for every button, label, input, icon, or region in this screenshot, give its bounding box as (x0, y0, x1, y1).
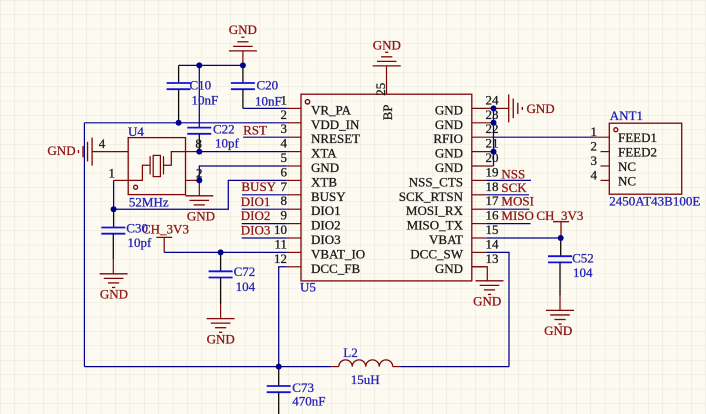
svg-text:DCC_SW: DCC_SW (410, 246, 463, 261)
wire: U5 pin 12 DCC_FB down to bottom rail (279, 267, 287, 367)
svg-text:VR_PA: VR_PA (311, 102, 352, 117)
U5 pin 4 stub (287, 151, 301, 153)
U5 pin 3 stub (287, 136, 301, 138)
svg-text:GND: GND (187, 208, 215, 223)
svg-text:DIO1: DIO1 (241, 194, 271, 209)
svg-text:3: 3 (591, 153, 598, 168)
svg-text:MOSI: MOSI (501, 194, 534, 209)
svg-text:16: 16 (486, 208, 500, 223)
svg-text:SCK_RTSN: SCK_RTSN (399, 189, 464, 204)
svg-text:10nF: 10nF (192, 92, 219, 107)
svg-text:3: 3 (281, 121, 288, 136)
svg-text:10nF: 10nF (255, 93, 282, 108)
svg-text:6: 6 (281, 164, 288, 179)
svg-text:ANT1: ANT1 (610, 108, 643, 123)
svg-text:NC: NC (618, 173, 636, 188)
U5 pin 9 stub (287, 223, 301, 225)
wire: U5 pin 5 GND down to U4 pin 2 junction (199, 166, 286, 180)
svg-text:104: 104 (236, 279, 256, 294)
junction: ground rail / C20 (240, 62, 246, 68)
wire: XTA from crystal to U5 pin 4 (199, 151, 286, 153)
svg-text:12: 12 (274, 251, 287, 266)
ground symbol right of U5 pin 24 (509, 94, 523, 122)
U4 pin-1 indicator circle (134, 185, 138, 189)
U5 pin 17 stub (472, 208, 486, 210)
U5 pin 16 stub (472, 223, 486, 225)
svg-text:DIO2: DIO2 (241, 208, 271, 223)
wire: CH_3V3 to U5 pin 11 VBAT_IO (164, 251, 286, 253)
svg-text:VDD_IN: VDD_IN (311, 117, 360, 132)
svg-text:104: 104 (573, 265, 593, 280)
ANT1 pin 3 stub (601, 165, 610, 167)
svg-text:19: 19 (486, 164, 499, 179)
wire: RST net to U5 pin 3 (243, 136, 287, 138)
capacitor C22 bottom pin (198, 134, 200, 152)
junction: VBAT wire / C52 / CH_3V3 (558, 235, 564, 241)
svg-text:GND: GND (527, 101, 555, 116)
svg-text:15: 15 (486, 222, 499, 237)
ground symbol below C72 (207, 319, 235, 333)
U5 pin-1 indicator circle (305, 100, 309, 104)
svg-text:C72: C72 (234, 264, 256, 279)
U5 pin 24 stub (472, 107, 494, 109)
svg-text:13: 13 (486, 251, 499, 266)
U5 pin 20 stub (472, 165, 494, 167)
ground stem below C30 (112, 259, 114, 273)
svg-text:52MHz: 52MHz (129, 194, 169, 209)
ground symbol below U4 pin 2 (185, 196, 213, 210)
wire: DIO1 net to U5 pin 8 (242, 208, 287, 210)
wire: top ground rail C10-C20 (179, 64, 243, 66)
wire: right ground bus pins 24-20 (493, 108, 495, 166)
wire: C20 to U5 pin 1 VR_PA (243, 107, 287, 109)
ground symbol below C52 (546, 310, 574, 324)
svg-text:DCC_FB: DCC_FB (311, 261, 360, 276)
crystal symbol inside U4 (128, 152, 185, 181)
junction: pin 23 / ground bus (491, 120, 497, 126)
ANT1 pin-1 indicator circle (614, 128, 618, 132)
svg-text:GND: GND (473, 293, 501, 308)
ANT1 pin 4 stub (601, 179, 610, 181)
U5 pin 7 stub (287, 194, 301, 196)
ANT1 pin 2 stub (601, 151, 610, 153)
U5 pin 10 stub (287, 237, 301, 239)
svg-text:GND: GND (373, 38, 401, 53)
ground symbol at U4 pin 4 (78, 138, 92, 166)
U5 pin 25 stub (386, 66, 388, 94)
U4 pin 8 stub (186, 151, 200, 153)
U5 pin 19 stub (472, 179, 486, 181)
svg-text:U5: U5 (300, 280, 316, 295)
junction: XTB / U4 pin 1 / C30 (111, 206, 117, 212)
svg-text:9: 9 (281, 208, 288, 223)
U5 pin 18 stub (472, 194, 486, 196)
svg-text:4: 4 (591, 167, 598, 182)
svg-text:L2: L2 (343, 345, 357, 360)
capacitor C73 (267, 386, 291, 392)
wire: VBAT to C52 / CH_3V3 (486, 237, 561, 239)
wire: DIO2 net to U5 pin 9 (242, 223, 287, 225)
wire: MISO net U5 pin 16 (486, 223, 530, 225)
svg-text:RFIO: RFIO (433, 131, 463, 146)
inductor L2 left pin (331, 366, 339, 368)
svg-text:1: 1 (591, 124, 598, 139)
ground stem below C52 (559, 296, 561, 311)
U5 pin 6 stub (287, 179, 301, 181)
svg-text:DIO3: DIO3 (311, 232, 341, 247)
U5 pin 13 ground link (472, 267, 488, 281)
U5 pin 15 stub (472, 237, 486, 239)
capacitor C20 top pin (242, 65, 244, 83)
svg-text:GND: GND (311, 160, 339, 175)
svg-text:2450AT43B100E: 2450AT43B100E (609, 194, 700, 209)
U4 pin 4 stub (92, 151, 128, 153)
svg-text:C30: C30 (126, 221, 148, 236)
svg-text:1: 1 (281, 92, 288, 107)
power port CH_3V3 (right, at VBAT) (553, 222, 569, 238)
svg-text:DIO1: DIO1 (311, 203, 341, 218)
svg-text:GND: GND (435, 102, 463, 117)
capacitor C73 top pin (278, 367, 280, 386)
svg-text:GND: GND (207, 331, 235, 346)
wire: SCK net U5 pin 18 (486, 194, 529, 196)
svg-text:5: 5 (281, 150, 288, 165)
capacitor C22 (187, 128, 211, 134)
IC U5 body (301, 94, 472, 281)
svg-text:XTA: XTA (311, 146, 337, 161)
wire: MOSI net U5 pin 17 (486, 208, 529, 210)
capacitor C72 (209, 271, 233, 277)
junction: ground rail / C22 line (196, 62, 202, 68)
U5 pin 21 stub (472, 151, 494, 153)
U5 pin 5 stub (287, 165, 301, 167)
wire: bottom rail right section (400, 366, 509, 368)
junction: XTA / C22 / U4 pin 8 (196, 149, 202, 155)
svg-text:10: 10 (274, 222, 287, 237)
wire: DIO3 net to U5 pin 10 (242, 237, 287, 239)
svg-text:15uH: 15uH (351, 372, 380, 387)
U4 pin 2 stub (186, 179, 200, 181)
svg-text:11: 11 (274, 236, 287, 251)
capacitor C10 top pin (178, 65, 180, 83)
svg-text:24: 24 (486, 92, 500, 107)
capacitor C30 top pin (113, 209, 115, 227)
capacitor C30 bottom pin (112, 234, 114, 260)
U5 pin 23 stub (472, 122, 494, 124)
capacitor C72 top pin (220, 252, 222, 271)
ANT1 pin 1 stub (593, 136, 609, 138)
power port CH_3V3 (left, at C30/VBAT_IO) (156, 237, 172, 252)
svg-text:VBAT: VBAT (429, 232, 463, 247)
svg-text:4: 4 (281, 136, 288, 151)
svg-text:MOSI_RX: MOSI_RX (406, 203, 464, 218)
svg-text:C10: C10 (190, 77, 212, 92)
inductor L2 right pin (393, 366, 401, 368)
capacitor C52 (548, 256, 572, 262)
svg-text:FEED2: FEED2 (618, 145, 657, 160)
svg-text:CH_3V3: CH_3V3 (536, 208, 583, 223)
svg-text:RST: RST (243, 122, 267, 137)
ground stem below C72 (220, 304, 222, 319)
junction: pin 21 / ground bus (491, 149, 497, 155)
capacitor C20 (231, 83, 255, 89)
svg-text:GND: GND (435, 261, 463, 276)
svg-text:GND: GND (229, 22, 257, 37)
ground symbol above C10/C20 rail (229, 37, 257, 51)
wire: VDD_IN rail to U5 pin 2 (84, 122, 286, 124)
svg-text:DIO2: DIO2 (311, 218, 341, 233)
U5 pin 11 stub (287, 251, 301, 253)
svg-text:NSS_CTS: NSS_CTS (409, 174, 463, 189)
svg-text:FEED1: FEED1 (618, 130, 657, 145)
svg-text:8: 8 (281, 193, 288, 208)
U5 pin 1 stub (287, 107, 301, 109)
U5 pin 8 stub (287, 208, 301, 210)
svg-text:C52: C52 (572, 250, 594, 265)
svg-text:GND: GND (544, 323, 572, 338)
svg-text:XTB: XTB (311, 174, 337, 189)
svg-text:BUSY: BUSY (241, 179, 276, 194)
svg-text:470nF: 470nF (292, 393, 325, 408)
ground symbol below C30 (100, 274, 128, 288)
svg-text:VBAT_IO: VBAT_IO (311, 246, 365, 261)
svg-text:7: 7 (281, 179, 288, 194)
wire: RFIO to ANT1 FEED1 (494, 136, 594, 138)
svg-text:4: 4 (99, 136, 106, 151)
U4 pin 1 stub (114, 179, 129, 181)
capacitor C72 bottom pin (220, 278, 222, 305)
capacitor C73 bottom pin (278, 392, 280, 414)
svg-text:14: 14 (486, 236, 500, 251)
svg-text:17: 17 (486, 193, 500, 208)
U5 pin 2 stub (287, 122, 301, 124)
capacitor C30 (101, 228, 125, 234)
svg-text:MISO_TX: MISO_TX (407, 218, 464, 233)
wire: NSS net U5 pin 19 (486, 179, 531, 181)
svg-text:C20: C20 (257, 78, 279, 93)
U5 pin 12 stub (287, 266, 301, 268)
svg-text:MISO: MISO (501, 208, 534, 223)
svg-text:10pf: 10pf (215, 136, 240, 151)
svg-text:NRESET: NRESET (311, 131, 360, 146)
junction: pin 24 / ground bus (491, 105, 497, 111)
svg-text:25: 25 (373, 83, 388, 96)
svg-text:BP: BP (380, 104, 395, 120)
U5 pin 13 stub (472, 266, 486, 268)
U5 pin 14 stub (472, 251, 486, 253)
wire: DCC_SW U5 pin 14 down to bottom rail (486, 252, 509, 366)
svg-text:21: 21 (486, 136, 499, 151)
svg-text:U4: U4 (128, 124, 144, 139)
wire: U5 pin 6 XTB to U4 pin 1 (114, 180, 287, 209)
capacitor C10 (167, 83, 191, 89)
junction: bottom rail / DCC_FB / C73 (276, 364, 282, 370)
inductor L2 (339, 360, 393, 367)
svg-text:1: 1 (109, 165, 116, 180)
svg-text:2: 2 (281, 107, 288, 122)
crystal module U4 body (128, 138, 185, 195)
svg-text:18: 18 (486, 179, 499, 194)
svg-text:GND: GND (435, 146, 463, 161)
svg-text:2: 2 (591, 139, 598, 154)
capacitor C20 bottom pin (242, 89, 244, 108)
ground stem right of pin 24 (494, 107, 509, 109)
svg-text:DIO3: DIO3 (241, 223, 271, 238)
svg-text:C22: C22 (213, 122, 235, 137)
svg-text:GND: GND (100, 286, 128, 301)
ground symbol below U5 pin 13 (476, 281, 504, 295)
svg-text:BUSY: BUSY (311, 189, 346, 204)
capacitor C52 top pin (560, 238, 562, 256)
svg-text:GND: GND (435, 117, 463, 132)
wire: BUSY net to U5 pin 7 (242, 194, 287, 196)
junction: U4 pin 2 / GND (196, 177, 202, 183)
wire: GND stem above C20 junction (242, 51, 244, 65)
capacitor C10 bottom pin (178, 89, 180, 123)
ground symbol above U5 pin 25 (373, 52, 401, 66)
wire: left vertical rail (83, 123, 85, 367)
antenna ANT1 body (609, 123, 681, 194)
svg-text:GND: GND (435, 160, 463, 175)
svg-text:NC: NC (618, 159, 636, 174)
U5 pin 22 stub (472, 136, 494, 138)
svg-text:10pf: 10pf (128, 235, 153, 250)
junction: VBAT_IO wire / C72 (218, 249, 224, 255)
junction: VDD rail / C10 (176, 120, 182, 126)
svg-text:GND: GND (47, 143, 75, 158)
capacitor C52 bottom pin (559, 262, 561, 295)
ground stem below U4 pin 2 (198, 180, 200, 195)
wire: vertical from ground rail down to C22 (198, 65, 200, 127)
wire: bottom rail left section (84, 366, 331, 368)
